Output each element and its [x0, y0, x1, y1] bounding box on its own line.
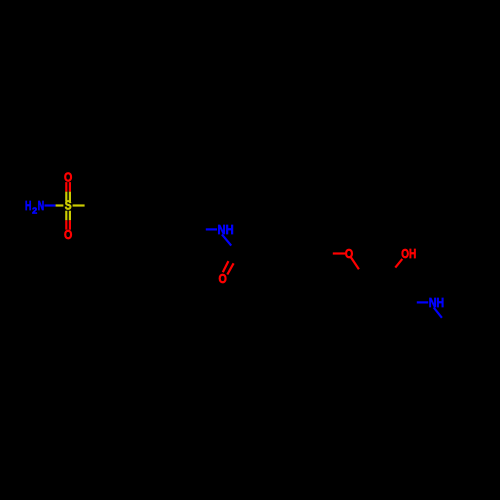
- svg-text:OH: OH: [401, 246, 416, 261]
- svg-text:H: H: [25, 198, 31, 213]
- svg-text:NH: NH: [429, 295, 444, 310]
- svg-text:2: 2: [32, 206, 37, 216]
- svg-text:O: O: [345, 246, 353, 261]
- svg-text:O: O: [219, 271, 227, 286]
- svg-text:O: O: [64, 227, 72, 242]
- svg-text:S: S: [65, 198, 72, 213]
- svg-text:NH: NH: [218, 222, 234, 237]
- svg-text:O: O: [64, 169, 72, 184]
- svg-text:N: N: [38, 198, 44, 213]
